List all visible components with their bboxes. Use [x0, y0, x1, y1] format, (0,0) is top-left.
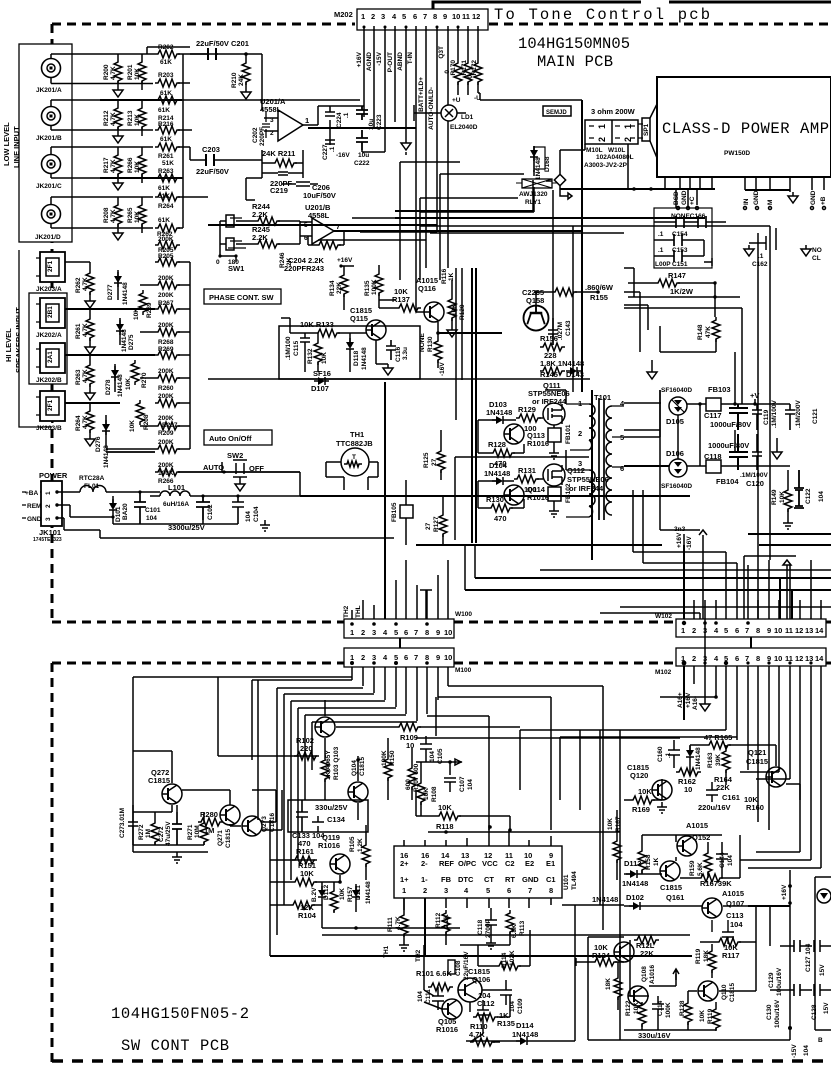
svg-text:A1016: A1016 — [649, 964, 656, 984]
svg-text:R161: R161 — [296, 847, 314, 856]
svg-text:3: 3 — [372, 653, 376, 662]
svg-text:FB: FB — [441, 875, 452, 884]
svg-text:R131: R131 — [518, 466, 536, 475]
svg-text:BA20: BA20 — [122, 503, 129, 520]
svg-text:100K: 100K — [381, 750, 388, 766]
svg-text:D106: D106 — [666, 449, 684, 458]
svg-text:C129: C129 — [768, 972, 775, 988]
svg-text:RT: RT — [505, 875, 515, 884]
svg-text:R272: R272 — [138, 824, 145, 840]
svg-text:1K: 1K — [653, 857, 660, 866]
svg-text:.1: .1 — [329, 146, 336, 152]
svg-text:9: 9 — [436, 653, 440, 662]
svg-text:22K: 22K — [640, 949, 654, 958]
svg-text:.1: .1 — [343, 112, 350, 118]
svg-text:PW150D: PW150D — [724, 150, 750, 157]
svg-text:A1015: A1015 — [722, 889, 744, 898]
svg-text:T-IN: T-IN — [407, 52, 414, 65]
svg-text:R266: R266 — [127, 157, 134, 173]
svg-text:C2: C2 — [505, 859, 515, 868]
svg-text:R260: R260 — [158, 385, 174, 392]
svg-text:4.7K: 4.7K — [82, 323, 89, 337]
svg-text:1: 1 — [350, 628, 354, 637]
svg-text:200K: 200K — [158, 236, 174, 243]
svg-text:R125: R125 — [423, 452, 430, 468]
svg-text:1000uF/80V: 1000uF/80V — [708, 441, 749, 450]
svg-text:GND: GND — [753, 190, 760, 205]
svg-text:BSD: BSD — [673, 191, 680, 205]
svg-text:+16V: +16V — [781, 884, 788, 900]
svg-text:-15V: -15V — [376, 51, 383, 65]
svg-text:C122: C122 — [805, 488, 812, 504]
svg-text:C219: C219 — [270, 186, 288, 195]
svg-text:22uF/50V: 22uF/50V — [196, 167, 229, 176]
svg-text:C227: C227 — [322, 144, 329, 160]
svg-text:VCC: VCC — [482, 859, 498, 868]
svg-text:5: 5 — [402, 12, 406, 21]
svg-text:R262: R262 — [75, 277, 82, 293]
svg-text:R263: R263 — [75, 369, 82, 385]
svg-text:R103 Q103: R103 Q103 — [333, 746, 340, 780]
svg-text:A16-: A16- — [692, 696, 699, 710]
svg-text:4.7K: 4.7K — [110, 112, 117, 126]
svg-text:5: 5 — [394, 653, 398, 662]
svg-text:DTC: DTC — [458, 875, 474, 884]
svg-text:1: 1 — [45, 491, 52, 495]
svg-text:61K: 61K — [158, 107, 170, 114]
svg-text:6: 6 — [507, 886, 511, 895]
svg-text:T101: T101 — [594, 393, 611, 402]
svg-text:0: 0 — [216, 259, 220, 266]
svg-text:R263: R263 — [158, 168, 174, 175]
svg-text:D275: D275 — [128, 334, 135, 350]
svg-text:SW2: SW2 — [227, 451, 243, 460]
svg-text:R160: R160 — [746, 803, 764, 812]
svg-text:R1016: R1016 — [527, 493, 549, 502]
svg-text:22K: 22K — [336, 282, 343, 294]
svg-text:8: 8 — [433, 12, 437, 21]
svg-text:C1815: C1815 — [729, 982, 736, 1002]
svg-text:24K: 24K — [238, 74, 245, 86]
svg-text:11: 11 — [785, 626, 793, 635]
svg-text:R208: R208 — [103, 207, 110, 223]
svg-text:200K: 200K — [158, 275, 174, 282]
svg-text:C203: C203 — [202, 145, 220, 154]
svg-text:104: 104 — [429, 751, 436, 762]
svg-text:M10L: M10L — [586, 147, 603, 154]
svg-text:B: B — [818, 1037, 823, 1044]
svg-text:R269: R269 — [158, 346, 174, 353]
svg-text:4.7K: 4.7K — [110, 66, 117, 80]
svg-text:NONE: NONE — [419, 333, 426, 352]
svg-text:C1815: C1815 — [746, 757, 768, 766]
svg-text:51K: 51K — [162, 160, 174, 167]
svg-text:3 ohm 200W: 3 ohm 200W — [591, 107, 636, 116]
svg-text:Q158: Q158 — [526, 296, 544, 305]
svg-text:B.2V: B.2V — [311, 887, 318, 902]
svg-text:R203: R203 — [158, 72, 174, 79]
svg-text:1: 1 — [597, 124, 607, 129]
svg-text:R169: R169 — [632, 805, 650, 814]
svg-text:1: 1 — [402, 886, 406, 895]
svg-text:11: 11 — [785, 654, 793, 663]
svg-text:10K: 10K — [607, 818, 614, 830]
svg-text:M202: M202 — [334, 10, 353, 19]
svg-text:+B: +B — [820, 196, 827, 205]
svg-text:U101: U101 — [563, 874, 570, 890]
svg-text:TH1: TH1 — [350, 430, 364, 439]
svg-text:GND: GND — [810, 190, 817, 205]
svg-text:R148: R148 — [697, 324, 704, 340]
svg-text:C130: C130 — [766, 1004, 773, 1020]
svg-text:E2: E2 — [525, 859, 534, 868]
svg-text:RTC28A: RTC28A — [79, 475, 105, 482]
svg-text:R217: R217 — [103, 157, 110, 173]
svg-text:2-: 2- — [421, 859, 428, 868]
svg-text:-15V: -15V — [791, 1044, 798, 1058]
svg-text:47 R165: 47 R165 — [704, 733, 732, 742]
svg-text:8: 8 — [549, 886, 553, 895]
svg-text:C116: C116 — [395, 346, 402, 362]
svg-text:14: 14 — [815, 626, 824, 635]
svg-text:7: 7 — [336, 222, 340, 231]
svg-text:R124: R124 — [592, 951, 611, 960]
svg-text:4.7K: 4.7K — [82, 277, 89, 291]
svg-text:R267: R267 — [158, 300, 174, 307]
svg-text:SP1: SP1 — [643, 123, 650, 136]
svg-text:JK201/C: JK201/C — [36, 183, 62, 190]
svg-text:R122: R122 — [625, 1000, 632, 1016]
svg-text:PHASE CONT. SW: PHASE CONT. SW — [209, 293, 275, 302]
svg-text:61K: 61K — [158, 217, 170, 224]
svg-text:.027M: .027M — [557, 322, 564, 340]
svg-text:D113: D113 — [624, 859, 642, 868]
svg-text:22K: 22K — [716, 783, 730, 792]
svg-text:104: 104 — [730, 920, 743, 929]
svg-text:TL494: TL494 — [571, 871, 578, 890]
svg-text:47u/25V: 47u/25V — [165, 821, 172, 846]
svg-text:10K: 10K — [134, 114, 141, 126]
svg-text:22uF/50V C201: 22uF/50V C201 — [196, 39, 249, 48]
svg-text:AUTO: AUTO — [203, 463, 224, 472]
svg-text:0: 0 — [444, 70, 451, 74]
svg-text:104: 104 — [818, 491, 825, 502]
svg-text:R213: R213 — [127, 110, 134, 126]
svg-text:C101: C101 — [145, 507, 161, 514]
svg-text:R101 6.6K: R101 6.6K — [416, 969, 452, 978]
svg-text:JK101: JK101 — [39, 528, 61, 537]
svg-text:TH1: TH1 — [383, 945, 390, 958]
svg-text:.1M/100V: .1M/100V — [740, 472, 768, 479]
svg-text:SW1: SW1 — [228, 264, 244, 273]
svg-text:C272: C272 — [158, 826, 165, 842]
svg-text:+16V: +16V — [356, 51, 363, 67]
svg-text:D118: D118 — [353, 350, 360, 366]
svg-text:A16+: A16+ — [677, 692, 684, 708]
svg-text:10K: 10K — [339, 888, 346, 900]
svg-text:R157: R157 — [347, 886, 354, 902]
svg-text:C119: C119 — [763, 409, 770, 425]
svg-text:R149: R149 — [771, 489, 778, 505]
svg-text:R128: R128 — [679, 1000, 686, 1016]
svg-text:1N4148: 1N4148 — [361, 347, 368, 370]
svg-text:R135: R135 — [364, 280, 371, 296]
svg-text:220PF: 220PF — [259, 127, 266, 146]
svg-text:R270: R270 — [141, 372, 148, 388]
svg-text:200K: 200K — [158, 415, 174, 422]
svg-text:C1815: C1815 — [359, 756, 366, 776]
svg-text:1N4148: 1N4148 — [512, 1030, 538, 1039]
svg-text:1-: 1- — [421, 875, 428, 884]
svg-text:10: 10 — [444, 653, 452, 662]
svg-text:27: 27 — [425, 522, 432, 530]
svg-text:JK201/A: JK201/A — [36, 87, 62, 94]
svg-text:C1815: C1815 — [148, 776, 170, 785]
svg-text:2: 2 — [423, 886, 427, 895]
svg-text:SF16040D: SF16040D — [661, 483, 692, 490]
svg-text:.1M/200V: .1M/200V — [795, 400, 802, 428]
svg-text:.1: .1 — [658, 247, 664, 254]
svg-text:POWER: POWER — [39, 471, 68, 480]
svg-text:R132: R132 — [307, 348, 314, 364]
svg-text:10K: 10K — [134, 161, 141, 173]
svg-text:C107: C107 — [459, 776, 466, 792]
svg-text:100K: 100K — [158, 470, 174, 477]
svg-text:C161: C161 — [722, 793, 740, 802]
svg-text:10K: 10K — [438, 803, 452, 812]
svg-text:R289: R289 — [146, 302, 153, 318]
svg-text:10u: 10u — [358, 152, 369, 159]
svg-text:GND: GND — [681, 190, 688, 205]
svg-text:5: 5 — [486, 886, 490, 895]
svg-text:330u/16V: 330u/16V — [638, 1031, 671, 1040]
svg-text:10K R133: 10K R133 — [300, 320, 334, 329]
svg-text:12: 12 — [795, 654, 803, 663]
svg-text:O/PC: O/PC — [458, 859, 477, 868]
svg-text:Q271: Q271 — [217, 830, 224, 846]
svg-text:4.7K: 4.7K — [110, 159, 117, 173]
svg-text:3: 3 — [45, 517, 52, 521]
svg-text:1N4148: 1N4148 — [122, 282, 129, 305]
svg-text:8: 8 — [756, 626, 760, 635]
svg-text:3: 3 — [444, 886, 448, 895]
svg-text:104HG150MN05: 104HG150MN05 — [518, 35, 630, 53]
svg-text:8: 8 — [756, 654, 760, 663]
svg-text:13: 13 — [805, 626, 813, 635]
svg-text:6: 6 — [404, 653, 408, 662]
svg-text:12: 12 — [472, 12, 480, 21]
svg-text:D101: D101 — [115, 506, 122, 522]
svg-text:Q120: Q120 — [630, 771, 648, 780]
svg-text:C143: C143 — [565, 320, 572, 336]
svg-text:7: 7 — [423, 12, 427, 21]
svg-text:10: 10 — [452, 12, 460, 21]
svg-text:470: 470 — [494, 514, 507, 523]
svg-text:12: 12 — [795, 626, 803, 635]
svg-text:JK202/B: JK202/B — [36, 377, 62, 384]
svg-text:C1815: C1815 — [660, 883, 682, 892]
svg-text:-16V: -16V — [686, 536, 693, 550]
svg-text:or IRF244: or IRF244 — [569, 484, 604, 493]
svg-text:FB105: FB105 — [391, 502, 398, 522]
svg-text:9: 9 — [767, 626, 771, 635]
svg-text:M100: M100 — [455, 667, 472, 674]
svg-text:13: 13 — [805, 654, 813, 663]
svg-text:R210: R210 — [231, 72, 238, 88]
svg-text:Q110: Q110 — [721, 984, 728, 1000]
svg-text:2: 2 — [692, 654, 696, 663]
svg-text:R113: R113 — [519, 920, 526, 936]
svg-text:8: 8 — [425, 653, 429, 662]
svg-text:R128: R128 — [488, 440, 506, 449]
svg-text:C273.01M: C273.01M — [119, 808, 126, 838]
svg-text:REF: REF — [439, 859, 454, 868]
svg-text:E1: E1 — [546, 859, 555, 868]
svg-text:R207: R207 — [162, 422, 178, 429]
svg-text:D107: D107 — [311, 384, 329, 393]
svg-text:C121: C121 — [812, 408, 819, 424]
svg-text:104HG150FN05-2: 104HG150FN05-2 — [111, 1005, 249, 1023]
svg-text:6uH/16A: 6uH/16A — [163, 501, 189, 508]
svg-text:2: 2 — [361, 653, 365, 662]
svg-text:3.3u: 3.3u — [402, 347, 409, 360]
svg-text:1N4148: 1N4148 — [117, 374, 124, 397]
svg-text:1: 1 — [305, 116, 309, 125]
svg-text:R261: R261 — [158, 153, 174, 160]
svg-text:R104: R104 — [298, 911, 317, 920]
svg-text:Q3T: Q3T — [438, 46, 445, 59]
svg-text:SW CONT PCB: SW CONT PCB — [121, 1037, 229, 1055]
svg-text:Q104: Q104 — [351, 760, 358, 776]
svg-text:+16V: +16V — [685, 692, 692, 708]
svg-text:R167: R167 — [615, 816, 622, 832]
svg-text:R105: R105 — [349, 836, 356, 852]
svg-text:R155: R155 — [590, 293, 608, 302]
svg-text:R208: R208 — [143, 414, 150, 430]
svg-text:THL: THL — [355, 605, 362, 618]
svg-text:R201: R201 — [127, 64, 134, 80]
svg-text:JK203/B: JK203/B — [36, 425, 62, 432]
svg-text:GND: GND — [522, 875, 539, 884]
svg-text:R156: R156 — [540, 334, 558, 343]
svg-text:R130: R130 — [486, 495, 504, 504]
svg-text:10K: 10K — [638, 787, 652, 796]
svg-text:2+: 2+ — [400, 859, 409, 868]
svg-text:.1: .1 — [658, 231, 664, 238]
svg-text:R1016: R1016 — [318, 841, 340, 850]
svg-text:2F1: 2F1 — [47, 260, 54, 272]
svg-text:330u/25V: 330u/25V — [315, 803, 348, 812]
svg-text:6: 6 — [735, 626, 739, 635]
svg-text:C1815: C1815 — [225, 828, 232, 848]
svg-text:200K: 200K — [158, 292, 174, 299]
svg-text:BATT+/LD+: BATT+/LD+ — [418, 77, 425, 112]
svg-text:C118: C118 — [477, 919, 484, 935]
svg-text:61K: 61K — [160, 136, 172, 143]
svg-text:61K: 61K — [158, 193, 170, 200]
svg-text:61K: 61K — [160, 59, 172, 66]
svg-text:C108: C108 — [455, 960, 462, 976]
svg-text:R265: R265 — [127, 207, 134, 223]
svg-text:2: 2 — [371, 12, 375, 21]
svg-text:200K: 200K — [158, 368, 174, 375]
svg-text:FB103: FB103 — [708, 385, 731, 394]
svg-text:100K: 100K — [665, 1002, 672, 1018]
svg-text:C1: C1 — [546, 875, 556, 884]
svg-text:Q121: Q121 — [748, 748, 766, 757]
svg-text:Q115: Q115 — [350, 314, 368, 323]
svg-text:24K R211: 24K R211 — [262, 149, 295, 158]
svg-text:JK201/B: JK201/B — [36, 135, 62, 142]
svg-text:R116: R116 — [441, 268, 448, 284]
svg-text:-16V: -16V — [336, 152, 350, 159]
svg-text:MAIN PCB: MAIN PCB — [537, 53, 613, 71]
svg-text:R163: R163 — [707, 752, 714, 768]
svg-text:C151: C151 — [672, 261, 688, 268]
svg-text:104: 104 — [245, 511, 252, 522]
svg-text:LD1: LD1 — [461, 114, 474, 121]
svg-text:.1M/100: .1M/100 — [285, 336, 292, 360]
svg-text:R1016: R1016 — [527, 439, 549, 448]
svg-text:D276: D276 — [95, 436, 102, 452]
svg-text:C224: C224 — [336, 112, 343, 128]
svg-text:+BA: +BA — [25, 490, 38, 497]
svg-text:6: 6 — [413, 12, 417, 21]
svg-text:+16V: +16V — [337, 257, 353, 264]
svg-text:2A1: 2A1 — [47, 351, 54, 363]
svg-text:104: 104 — [146, 515, 157, 522]
svg-text:6: 6 — [620, 464, 624, 473]
svg-text:14: 14 — [815, 654, 824, 663]
svg-text:5: 5 — [304, 222, 308, 229]
svg-text:-16V: -16V — [439, 362, 446, 376]
svg-text:TH2: TH2 — [343, 605, 350, 618]
svg-text:JK202/A: JK202/A — [36, 332, 62, 339]
svg-text:10: 10 — [444, 628, 452, 637]
svg-text:R1016: R1016 — [436, 1025, 458, 1034]
svg-text:1N4148: 1N4148 — [121, 329, 128, 352]
svg-text:C162: C162 — [752, 261, 768, 268]
svg-text:104: 104 — [467, 779, 474, 790]
svg-text:220PFR243: 220PFR243 — [284, 264, 324, 273]
svg-text:C117: C117 — [704, 411, 722, 420]
svg-text:10K: 10K — [300, 869, 314, 878]
svg-text:C120: C120 — [746, 479, 764, 488]
svg-text:10: 10 — [774, 654, 782, 663]
svg-text:D143: D143 — [566, 370, 584, 379]
svg-text:10: 10 — [684, 785, 692, 794]
svg-text:R271: R271 — [187, 824, 194, 840]
svg-text:OFF: OFF — [249, 464, 264, 473]
svg-text:R261: R261 — [75, 323, 82, 339]
svg-text:R264: R264 — [75, 415, 82, 431]
svg-text:W10L: W10L — [608, 147, 625, 154]
svg-text:C104: C104 — [253, 506, 260, 522]
svg-text:.1M/100V: .1M/100V — [771, 400, 778, 428]
svg-text:1N4148: 1N4148 — [486, 408, 512, 417]
svg-text:R268: R268 — [158, 339, 174, 346]
svg-text:10K: 10K — [129, 420, 136, 432]
svg-text:18K: 18K — [703, 950, 710, 962]
svg-text:39K: 39K — [715, 754, 722, 766]
svg-text:R216: R216 — [158, 121, 174, 128]
svg-text:10K: 10K — [125, 378, 132, 390]
svg-text:1N4148: 1N4148 — [695, 747, 702, 770]
svg-text:200K: 200K — [158, 322, 174, 329]
svg-text:D277: D277 — [107, 284, 114, 300]
svg-text:A3003-JV2-2P: A3003-JV2-2P — [584, 162, 628, 169]
svg-text:.1: .1 — [758, 253, 764, 260]
